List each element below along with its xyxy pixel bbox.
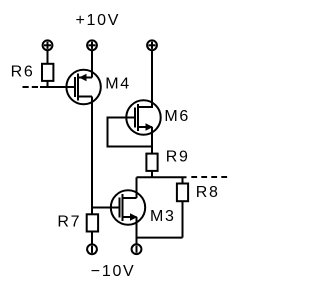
- svg-text:M4: M4: [105, 76, 131, 93]
- wire M3 gate to M4 drain branch: [92, 207, 120, 209]
- resistor R7: [87, 214, 98, 231]
- power terminal T1 (+): [43, 40, 53, 50]
- label R9: [166, 148, 190, 165]
- label R8: [196, 184, 220, 201]
- wire M3 source node to R8 bottom: [137, 237, 183, 239]
- svg-text:R8: R8: [196, 184, 220, 201]
- label -10V: [91, 263, 136, 280]
- node line (R9 / M3 drain / R8): [137, 176, 187, 178]
- resistor R9: [146, 154, 157, 171]
- label M3: [150, 208, 176, 225]
- power terminal T2 (+): [87, 40, 97, 50]
- wire R9 bottom to node: [151, 171, 153, 177]
- wire T1 to R6 top: [47, 50, 49, 64]
- label M4: [105, 76, 131, 93]
- wire R6 bottom to gate line: [47, 81, 49, 87]
- wire M6 gate feedback loop: [108, 118, 153, 147]
- svg-text:M3: M3: [150, 208, 176, 225]
- wire R8 bottom lead: [182, 201, 184, 237]
- power terminal B2 (-): [132, 244, 142, 254]
- wire M6 source down to R9: [151, 127, 153, 154]
- dashed input line (left): [23, 86, 42, 88]
- label M6: [164, 108, 190, 125]
- svg-text:M6: M6: [164, 108, 190, 125]
- wire M3 source down to terminal B2: [136, 217, 138, 244]
- wire node to R8 top: [182, 177, 184, 183]
- dashed output line (right): [191, 176, 228, 178]
- wire node to M3 drain: [136, 177, 138, 198]
- svg-text:+10V: +10V: [76, 12, 121, 29]
- power terminal B1 (-): [87, 244, 97, 254]
- wire R7 bottom to terminal B1: [91, 232, 93, 245]
- label +10V: [76, 12, 121, 29]
- transistor M6 (NMOS diode-connected): [126, 100, 160, 134]
- label R6: [11, 63, 35, 80]
- power terminal T3 (+): [147, 40, 157, 50]
- svg-text:−10V: −10V: [91, 263, 136, 280]
- resistor R6: [42, 64, 53, 81]
- svg-text:R6: R6: [11, 63, 35, 80]
- transistor M3 (NMOS): [111, 190, 145, 224]
- wire T3 to M6 drain: [151, 50, 153, 108]
- label R7: [57, 214, 81, 231]
- svg-text:R7: R7: [57, 214, 81, 231]
- transistor M4 (PMOS): [66, 70, 100, 104]
- resistor R8: [177, 184, 188, 202]
- wire T2 to M4 source: [91, 50, 93, 77]
- wire gate line to M4 gate: [40, 86, 75, 88]
- wire M4 drain down to R7 / M3 gate node: [91, 97, 93, 215]
- svg-text:R9: R9: [166, 148, 190, 165]
